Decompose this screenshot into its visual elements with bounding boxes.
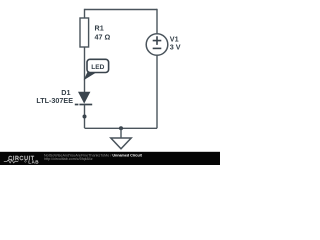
label leader dash	[75, 104, 79, 106]
svg-text:LED: LED	[91, 64, 104, 71]
svg-text:3 V: 3 V	[170, 43, 181, 52]
ground stem wire	[120, 128, 122, 138]
LED callout tail	[84, 71, 97, 80]
wire between resistor and LED	[84, 47, 86, 92]
wire right rail lower segment	[156, 55, 158, 128]
ground symbol	[111, 138, 131, 149]
CircuitLab logo zigzag	[4, 160, 18, 163]
node junction dot at ground tap	[119, 126, 123, 130]
wire below diode	[84, 105, 86, 129]
wire right rail upper segment	[156, 9, 158, 34]
diode D1 cathode bar	[79, 104, 92, 106]
node dot below diode	[83, 115, 87, 119]
watermark bar	[0, 152, 220, 165]
wire left rail upper segment	[84, 9, 86, 19]
voltage source V1 circle	[146, 34, 168, 56]
svg-text:http://circuitlab.com/c/5fqk84: http://circuitlab.com/c/5fqk84z	[44, 157, 93, 161]
diode D1 triangle (anode)	[78, 92, 90, 104]
svg-text:LAB: LAB	[28, 159, 39, 164]
svg-text:R1: R1	[95, 24, 104, 33]
svg-text:47 Ω: 47 Ω	[95, 33, 111, 42]
resistor R1	[80, 18, 89, 47]
wire top: node from R1 top to V1 plus	[85, 9, 158, 11]
LED callout balloon	[87, 59, 109, 72]
svg-text:LTL-307EE: LTL-307EE	[36, 96, 73, 105]
CircuitLab logo dot	[25, 161, 27, 163]
V1 minus sign	[153, 47, 162, 49]
V1 plus sign	[153, 36, 162, 45]
wire bottom: from D1 cathode to ground and V1 minus	[85, 127, 158, 129]
